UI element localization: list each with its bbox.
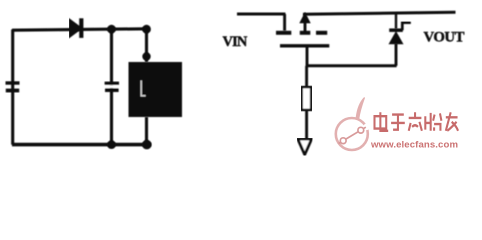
char 3 fa xyxy=(409,112,422,130)
node: top-rail / middle-branch junction xyxy=(107,25,116,34)
ground (open arrow) xyxy=(298,139,312,155)
wire: middle branch vertical xyxy=(110,30,113,145)
wire: drain drop xyxy=(283,14,286,31)
transistor Q1 body arrow head xyxy=(299,12,310,23)
transistor Q1 drain contact bar xyxy=(276,31,291,35)
char 4 shao xyxy=(425,113,441,131)
wire: left-circuit left side vertical xyxy=(11,30,14,145)
watermark logo circle xyxy=(336,118,368,150)
wire: output top rail xyxy=(303,12,456,14)
wire: resistor top lead xyxy=(305,66,308,87)
svg-text:VIN: VIN xyxy=(223,34,248,50)
char 1 dian xyxy=(375,112,389,130)
wire: VIN top lead xyxy=(237,13,285,16)
diode D1 (top rail, pointing right) xyxy=(70,18,83,38)
node: top-rail / block-lead junction xyxy=(142,25,151,34)
watermark text: 电子发烧友 (stylised strokes) xyxy=(375,112,459,130)
transistor Q1 gate plate xyxy=(280,44,329,47)
wire: left-circuit bottom rail xyxy=(12,143,151,147)
char 2 zi xyxy=(391,115,405,130)
load block U1 (black box) xyxy=(129,62,183,117)
diode D2 (zener, cathode up) xyxy=(389,23,411,45)
node: bottom-rail / block-lead junction xyxy=(142,140,152,150)
wire: gate tap down xyxy=(306,46,309,66)
transistor Q1 source contact bar xyxy=(316,31,327,35)
wire: resistor bottom lead xyxy=(305,110,308,139)
label L inside block xyxy=(141,81,145,96)
transistor Q1 body arrow stem xyxy=(304,21,307,31)
resistor R1 xyxy=(302,87,312,110)
wire: zener anode lead xyxy=(395,44,398,66)
char 5 you xyxy=(446,112,458,130)
wire: block top lead xyxy=(145,30,148,63)
wire: mid horizontal rail xyxy=(306,64,397,67)
capacitor C2 (middle branch) xyxy=(105,82,120,92)
node: bottom-rail / middle-branch junction xyxy=(107,140,116,149)
svg-text:VOUT: VOUT xyxy=(424,29,465,45)
wire: zener top stub xyxy=(395,13,397,29)
transistor Q1 body contact bar xyxy=(300,31,311,35)
wire: left-circuit top rail xyxy=(12,29,147,30)
capacitor C1 (left branch) xyxy=(6,81,20,92)
node: block top pin xyxy=(142,52,150,60)
watermark logo cable xyxy=(339,127,366,143)
watermark logo leaf xyxy=(356,98,364,119)
svg-text:www.elecfans.com: www.elecfans.com xyxy=(370,139,458,150)
wire: block bottom lead xyxy=(145,117,148,145)
